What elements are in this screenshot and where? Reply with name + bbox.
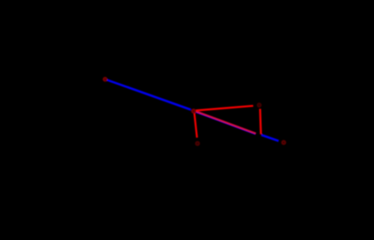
wire: blue segment A to C: [106, 80, 191, 110]
node A marker: [104, 78, 107, 81]
wire: crimson overlay segment C-E: [196, 111, 256, 133]
node D marker: [258, 104, 261, 107]
node C marker: [192, 110, 195, 113]
wire: blue segment C to E gap: [196, 112, 255, 134]
wire: red segment C-D: [196, 106, 253, 111]
wire: red vertical segment D-E: [259, 109, 262, 134]
wire: red segment C-F: [194, 112, 197, 138]
node E trace remnant: [282, 142, 284, 144]
wire: blue segment E to B: [261, 135, 278, 141]
node B marker: [282, 141, 285, 144]
node F marker: [196, 142, 199, 145]
